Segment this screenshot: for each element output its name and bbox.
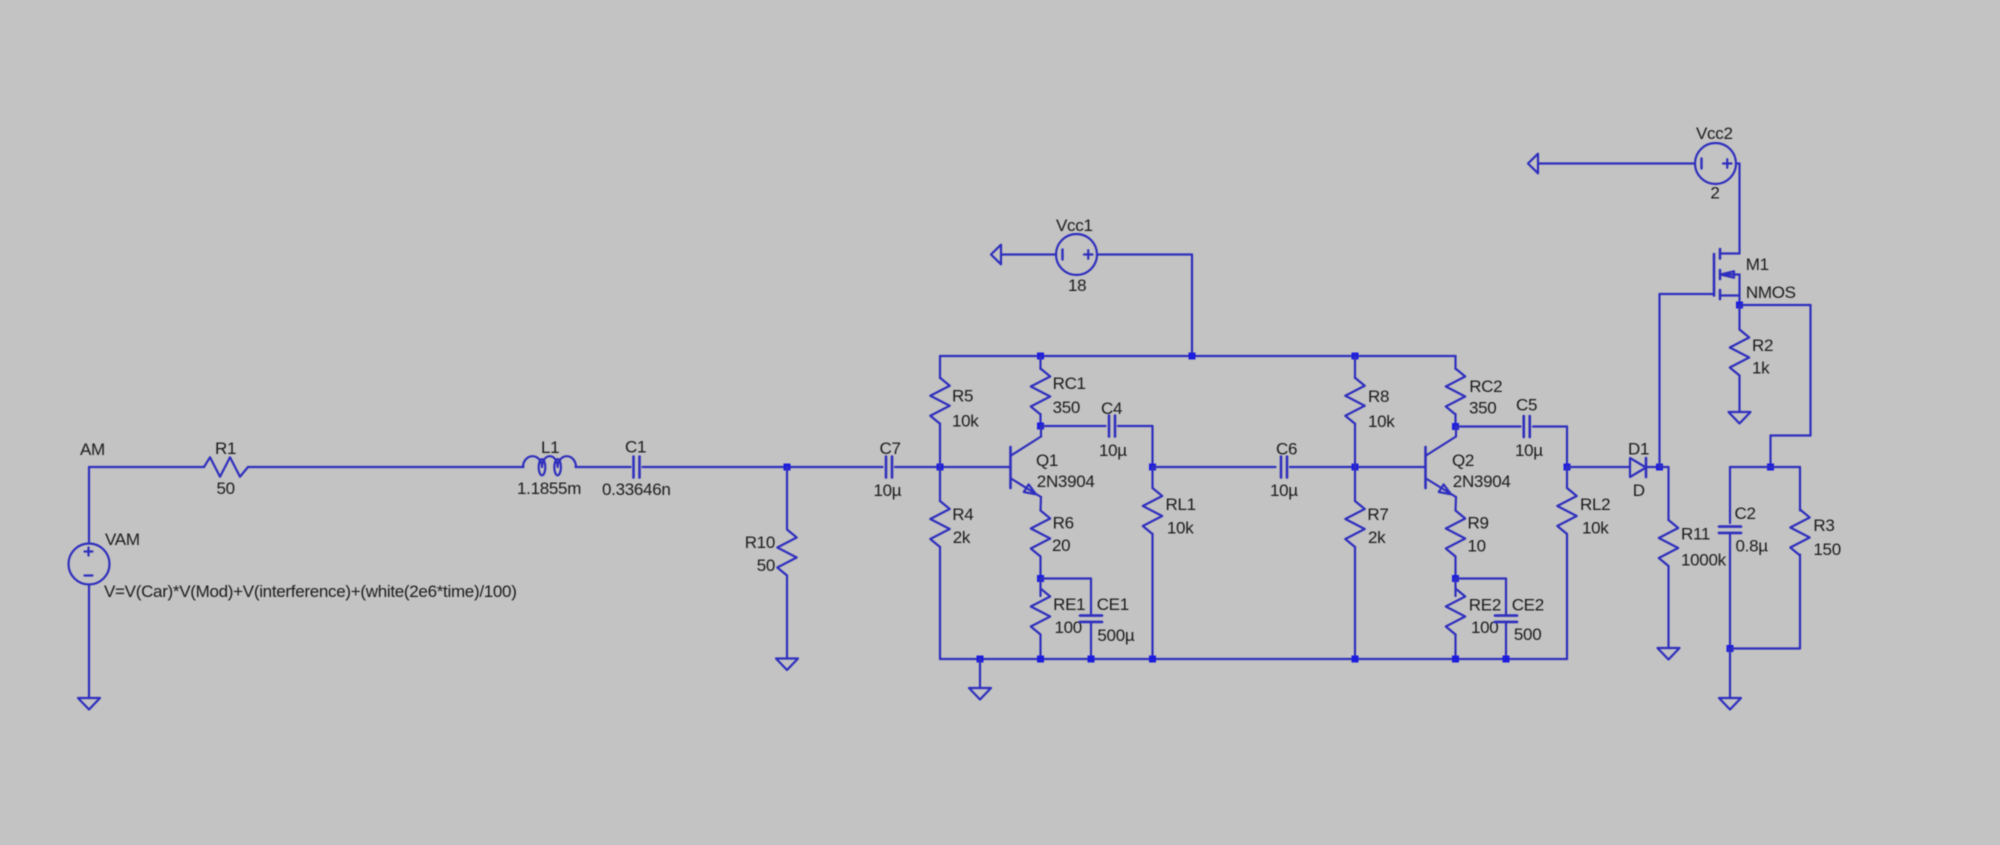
resistor RL2 (1557, 488, 1576, 534)
svg-text:350: 350 (1469, 399, 1496, 418)
junction (1727, 645, 1734, 652)
wire (1151, 467, 1153, 488)
value 1.1855m (517, 479, 581, 498)
svg-text:1.1855m: 1.1855m (517, 479, 581, 498)
svg-text:R9: R9 (1468, 514, 1489, 533)
capacitor C7 (886, 457, 892, 478)
wire (786, 467, 788, 529)
wire (1454, 635, 1456, 660)
wire (643, 466, 883, 468)
wire (1118, 425, 1153, 427)
svg-text:50: 50 (217, 479, 235, 498)
resistor R10 (777, 530, 796, 576)
value 10&#181; (874, 481, 902, 500)
wire (1039, 579, 1041, 597)
label RC2 (1469, 377, 1502, 396)
wire (1153, 466, 1276, 468)
wire (248, 466, 524, 468)
value 10k (1368, 412, 1395, 431)
junction (1564, 464, 1571, 471)
capacitor C2 (1719, 527, 1741, 533)
value NMOS (1746, 283, 1796, 302)
junction (1037, 353, 1044, 360)
junction (977, 656, 984, 663)
wire (1771, 434, 1811, 436)
wire (1090, 622, 1092, 659)
wire (1729, 649, 1731, 699)
svg-text:2N3904: 2N3904 (1037, 472, 1095, 491)
svg-text:C7: C7 (880, 439, 901, 458)
svg-text:Q1: Q1 (1036, 451, 1058, 470)
wire (1566, 534, 1568, 659)
value 50 (757, 556, 775, 575)
svg-text:R7: R7 (1367, 505, 1388, 524)
wire (1660, 466, 1669, 468)
wire (1505, 579, 1507, 616)
label RC1 (1053, 374, 1086, 393)
svg-text:0.33646n: 0.33646n (602, 480, 671, 499)
wire (1740, 304, 1811, 306)
value 10k (952, 412, 979, 431)
wire (979, 659, 981, 688)
wire (1454, 356, 1456, 369)
wire (1646, 466, 1660, 468)
wire (1454, 414, 1456, 427)
wire (1566, 427, 1568, 468)
label RE2 (1469, 596, 1501, 615)
wire (1799, 555, 1801, 649)
wire (1738, 376, 1740, 413)
label R7 (1367, 505, 1388, 524)
junction (1352, 353, 1359, 360)
resistor R11 (1659, 520, 1678, 566)
wire (1505, 622, 1507, 659)
label R5 (952, 387, 973, 406)
ground (969, 688, 991, 700)
junction source node (1736, 302, 1743, 309)
label C2 (1735, 504, 1756, 523)
svg-text:2N3904: 2N3904 (1453, 472, 1511, 491)
resistor R6 (1031, 511, 1050, 557)
node AM label (80, 440, 105, 459)
svg-text:500µ: 500µ (1097, 626, 1134, 645)
transistor M1 (1714, 249, 1740, 305)
port arrow (1528, 154, 1538, 174)
label M1 (1746, 255, 1769, 274)
value 10&#181; (1099, 441, 1127, 460)
wire drain (1738, 164, 1740, 254)
svg-text:0.8µ: 0.8µ (1736, 537, 1769, 556)
svg-text:Vcc2: Vcc2 (1696, 124, 1733, 143)
junction emitter node 2 (1452, 575, 1459, 582)
resistor R9 (1446, 511, 1465, 557)
label RL2 (1580, 495, 1610, 514)
label R1 (215, 439, 236, 458)
svg-text:500: 500 (1514, 625, 1541, 644)
wire (1090, 579, 1092, 616)
wire (1456, 577, 1507, 579)
value 100 (1055, 618, 1082, 637)
svg-text:150: 150 (1813, 540, 1840, 559)
resistor R3 (1790, 510, 1809, 556)
wire (939, 424, 941, 468)
value 10k (1582, 519, 1609, 538)
svg-text:RE1: RE1 (1053, 595, 1085, 614)
resistor R2 (1730, 330, 1749, 376)
wire (1151, 426, 1153, 467)
value 150 (1813, 540, 1840, 559)
label Vcc2 (1696, 124, 1733, 143)
transistor Q1 (1011, 426, 1042, 497)
wire (939, 356, 941, 378)
junction collector Q2 (1452, 423, 1459, 430)
wire (1039, 414, 1041, 426)
junction (784, 464, 791, 471)
value 2N3904 (1037, 472, 1095, 491)
resistor RE2 (1446, 589, 1465, 635)
svg-text:2: 2 (1710, 184, 1719, 203)
svg-text:CE2: CE2 (1512, 596, 1544, 615)
wire (1151, 534, 1153, 659)
wire (1667, 566, 1669, 648)
ground (1729, 412, 1751, 424)
wire (1667, 467, 1669, 520)
svg-text:V=V(Car)*V(Mod)+V(interference: V=V(Car)*V(Mod)+V(interference)+(white(2… (104, 582, 517, 601)
svg-text:Vcc1: Vcc1 (1056, 216, 1093, 235)
voltage source Vcc1 (1056, 234, 1097, 275)
svg-text:L1: L1 (541, 438, 559, 457)
svg-text:R4: R4 (952, 505, 973, 524)
svg-text:10k: 10k (952, 412, 979, 431)
wire (1730, 466, 1800, 468)
svg-text:M1: M1 (1746, 255, 1769, 274)
wire (1191, 255, 1193, 357)
svg-text:NMOS: NMOS (1746, 283, 1796, 302)
value 2N3904 (1453, 472, 1511, 491)
value 1000k (1681, 551, 1727, 570)
svg-text:VAM: VAM (105, 530, 140, 549)
wire (1039, 497, 1042, 511)
junction (1452, 656, 1459, 663)
wire (1539, 162, 1696, 164)
resistor R4 (930, 501, 949, 547)
wire (1041, 577, 1092, 579)
resistor RE1 (1031, 589, 1050, 635)
svg-text:50: 50 (757, 556, 775, 575)
svg-text:RL1: RL1 (1166, 495, 1196, 514)
wire (1736, 162, 1740, 164)
value 2k (1368, 528, 1386, 547)
wire (1454, 497, 1457, 511)
capacitor CE1 (1080, 616, 1102, 622)
svg-text:350: 350 (1053, 398, 1080, 417)
svg-text:2k: 2k (1368, 528, 1386, 547)
wire (1660, 293, 1715, 295)
wire (1354, 356, 1356, 378)
svg-text:10k: 10k (1368, 412, 1395, 431)
wire (939, 467, 941, 501)
junction (1503, 656, 1510, 663)
wire (1738, 305, 1740, 330)
value 0.8&#181; (1736, 537, 1769, 556)
label R9 (1468, 514, 1489, 533)
transistor Q2 (1426, 427, 1457, 498)
wire (1097, 253, 1192, 255)
svg-text:1k: 1k (1752, 359, 1770, 378)
value 2k (953, 528, 971, 547)
label CE1 (1097, 595, 1129, 614)
junction emitter node (1037, 575, 1044, 582)
value 350 (1469, 399, 1496, 418)
svg-text:C4: C4 (1101, 399, 1122, 418)
junction (1149, 656, 1156, 663)
label Q1 (1036, 451, 1058, 470)
value 100 (1471, 618, 1498, 637)
junction gate node (1656, 464, 1663, 471)
wire (1039, 635, 1041, 660)
label R3 (1813, 516, 1834, 535)
junction (1352, 656, 1359, 663)
svg-text:10k: 10k (1582, 519, 1609, 538)
label Q2 (1452, 451, 1474, 470)
capacitor C4 (1109, 416, 1115, 437)
svg-text:R10: R10 (745, 533, 775, 552)
wire (1454, 557, 1456, 579)
svg-text:10µ: 10µ (1515, 441, 1543, 460)
resistor R5 (930, 378, 949, 424)
svg-text:C6: C6 (1276, 440, 1297, 459)
wire (939, 547, 941, 659)
value 10k (1167, 519, 1194, 538)
svg-text:100: 100 (1055, 618, 1082, 637)
label Vcc1 (1056, 216, 1093, 235)
wire (88, 467, 90, 544)
wire (1730, 647, 1800, 649)
label D1 (1628, 440, 1649, 459)
svg-text:C5: C5 (1516, 396, 1537, 415)
wire (1456, 425, 1521, 427)
wire (89, 466, 204, 468)
diode D1 (1630, 458, 1646, 477)
wire (1454, 579, 1456, 597)
wire (1041, 425, 1106, 427)
svg-text:18: 18 (1068, 276, 1086, 295)
svg-text:10µ: 10µ (874, 481, 902, 500)
voltage source VAM (69, 544, 110, 585)
label R6 (1053, 514, 1074, 533)
wire (1799, 467, 1801, 511)
svg-text:D: D (1633, 481, 1645, 500)
label RE1 (1053, 595, 1085, 614)
value 10&#181; (1270, 481, 1298, 500)
value 350 (1053, 398, 1080, 417)
svg-text:R3: R3 (1813, 516, 1834, 535)
resistor RC2 (1446, 369, 1465, 415)
label R10 (745, 533, 775, 552)
value 10 (1468, 537, 1486, 556)
inductor L1 (523, 456, 576, 475)
junction collector Q1 (1037, 423, 1044, 430)
svg-text:R5: R5 (952, 387, 973, 406)
value D (1633, 481, 1645, 500)
resistor R1 (204, 457, 248, 476)
wire (1001, 253, 1056, 255)
label C4 (1101, 399, 1122, 418)
junction node B2 (1352, 464, 1359, 471)
label R2 (1752, 336, 1773, 355)
port arrow (991, 245, 1001, 265)
capacitor C6 (1281, 457, 1287, 478)
value 20 (1052, 536, 1070, 555)
svg-text:R6: R6 (1053, 514, 1074, 533)
wire (1533, 425, 1567, 427)
label VAM (105, 530, 140, 549)
value 500&#181; (1097, 626, 1134, 645)
svg-text:R2: R2 (1752, 336, 1773, 355)
svg-text:C1: C1 (625, 438, 646, 457)
svg-text:R8: R8 (1368, 387, 1389, 406)
wire (786, 576, 788, 659)
ground (776, 659, 798, 671)
wire (1729, 467, 1731, 523)
label C1 (625, 438, 646, 457)
resistor RC1 (1031, 369, 1050, 415)
svg-text:CE1: CE1 (1097, 595, 1129, 614)
value 18 (1068, 276, 1086, 295)
capacitor C1 (634, 457, 640, 478)
value 2 (1710, 184, 1719, 203)
resistor RL1 (1143, 488, 1162, 534)
svg-text:Q2: Q2 (1452, 451, 1474, 470)
junction (1767, 464, 1774, 471)
junction node B1 (937, 464, 944, 471)
svg-text:C2: C2 (1735, 504, 1756, 523)
junction (1149, 464, 1156, 471)
svg-text:RC2: RC2 (1469, 377, 1502, 396)
ground (1719, 698, 1741, 710)
svg-text:R1: R1 (215, 439, 236, 458)
label R11 (1681, 525, 1710, 544)
wire (1039, 557, 1041, 579)
wire (895, 466, 1010, 468)
wire Vcc rail (940, 355, 1456, 357)
label CE2 (1512, 596, 1544, 615)
ground (1658, 648, 1680, 660)
svg-text:10: 10 (1468, 537, 1486, 556)
ground (78, 698, 100, 710)
label L1 (541, 438, 559, 457)
svg-text:20: 20 (1052, 536, 1070, 555)
svg-text:R11: R11 (1681, 525, 1710, 544)
wire (1039, 356, 1041, 369)
svg-text:10µ: 10µ (1099, 441, 1127, 460)
wire (1567, 466, 1630, 468)
junction (1037, 656, 1044, 663)
wire ground rail (940, 658, 1567, 660)
junction (1088, 656, 1095, 663)
label C6 (1276, 440, 1297, 459)
capacitor CE2 (1495, 616, 1517, 622)
wire (1354, 467, 1356, 501)
wire (1354, 547, 1356, 659)
capacitor C5 (1524, 416, 1530, 437)
value 50 (217, 479, 235, 498)
value 500 (1514, 625, 1541, 644)
svg-text:RL2: RL2 (1580, 495, 1610, 514)
voltage source Vcc2 (1695, 143, 1736, 184)
wire (1809, 305, 1811, 436)
wire (576, 466, 631, 468)
value V=V(Car)*V(Mod)+V(interference)+(white(2e6*time)/100) (104, 582, 517, 601)
svg-text:2k: 2k (953, 528, 971, 547)
value 1k (1752, 359, 1770, 378)
resistor R8 (1345, 378, 1364, 424)
value 10&#181; (1515, 441, 1543, 460)
label R4 (952, 505, 973, 524)
svg-text:AM: AM (80, 440, 105, 459)
svg-text:RE2: RE2 (1469, 596, 1501, 615)
wire (1729, 533, 1731, 649)
wire (1354, 424, 1356, 468)
wire (1658, 294, 1660, 467)
wire (1290, 466, 1425, 468)
label C7 (880, 439, 901, 458)
svg-text:10µ: 10µ (1270, 481, 1298, 500)
resistor R7 (1345, 501, 1364, 547)
label R8 (1368, 387, 1389, 406)
svg-text:10k: 10k (1167, 519, 1194, 538)
junction (1189, 353, 1196, 360)
label C5 (1516, 396, 1537, 415)
wire (1566, 467, 1568, 488)
wire (88, 585, 90, 699)
wire (1769, 436, 1771, 468)
svg-text:RC1: RC1 (1053, 374, 1086, 393)
svg-text:D1: D1 (1628, 440, 1649, 459)
svg-text:1000k: 1000k (1681, 551, 1727, 570)
label RL1 (1166, 495, 1196, 514)
value 0.33646n (602, 480, 671, 499)
